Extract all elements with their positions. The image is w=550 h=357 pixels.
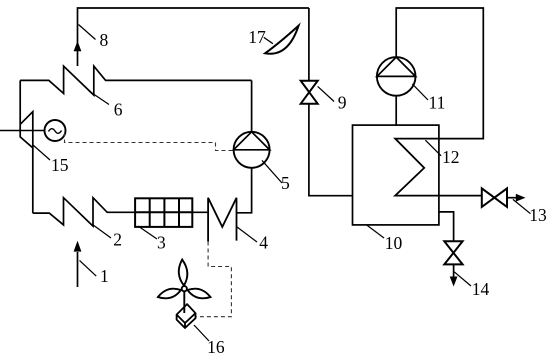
svg-text:3: 3 (157, 232, 166, 252)
svg-text:14: 14 (472, 279, 490, 299)
svg-text:1: 1 (100, 266, 109, 286)
svg-text:13: 13 (529, 205, 547, 225)
svg-text:2: 2 (113, 230, 122, 250)
svg-text:9: 9 (338, 92, 347, 112)
svg-text:8: 8 (100, 30, 109, 50)
svg-text:16: 16 (207, 337, 225, 357)
svg-text:12: 12 (442, 147, 460, 167)
svg-text:15: 15 (51, 155, 69, 175)
svg-text:6: 6 (114, 100, 123, 120)
svg-text:17: 17 (248, 27, 266, 47)
svg-text:4: 4 (259, 233, 268, 253)
svg-text:11: 11 (429, 93, 446, 113)
svg-text:5: 5 (281, 173, 290, 193)
svg-text:10: 10 (385, 233, 403, 253)
